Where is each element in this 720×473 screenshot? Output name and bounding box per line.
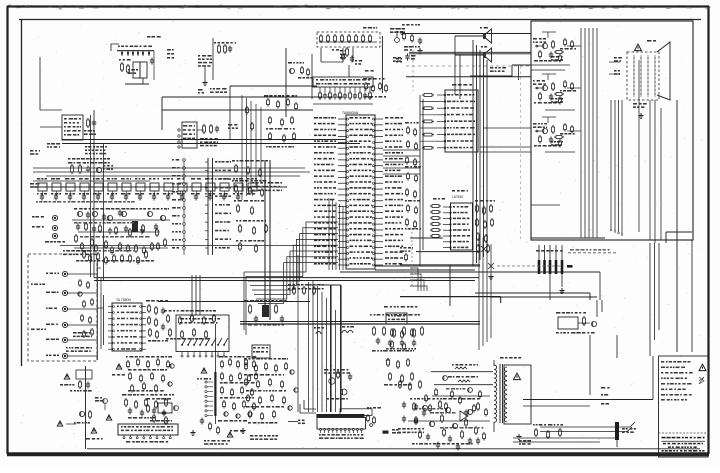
wire bundle to FBT connector xyxy=(313,280,336,412)
wire bold drops to FBT xyxy=(305,285,341,412)
degauss posistor cluster xyxy=(384,306,417,351)
tuner bias cluster Q201 area xyxy=(198,38,236,94)
wire drop verticals mid xyxy=(192,275,200,315)
heatsink bar xyxy=(214,355,216,424)
wire chroma drops xyxy=(101,278,215,355)
vertical IC input parts xyxy=(430,198,445,237)
transistor Q203 xyxy=(288,62,312,79)
transistor Q802 xyxy=(95,397,107,410)
wire vertical chassis divider xyxy=(85,366,87,449)
relay RL901 cluster xyxy=(556,300,602,334)
wire standby rail xyxy=(475,293,590,300)
resistor stack below KB1 xyxy=(340,47,362,77)
CRT board inner bottom notch xyxy=(531,232,692,243)
IF transformer T202 cluster xyxy=(178,122,238,148)
CRT cathode amp Q92 xyxy=(533,74,581,105)
CRT board internal wires xyxy=(531,65,575,205)
startup resistor rows xyxy=(431,364,493,396)
tuner AGC cluster xyxy=(68,158,113,174)
wire secondary harness xyxy=(513,422,635,442)
connector pin bumps xyxy=(314,326,354,334)
luma delay cluster parts xyxy=(246,95,298,148)
AC line filter parts xyxy=(398,380,424,433)
wire vert yoke xyxy=(400,238,480,306)
svg-text:TA 7680N: TA 7680N xyxy=(116,298,131,302)
CRT board right rail xyxy=(639,60,661,243)
shield can left pin column xyxy=(172,159,185,255)
wire shield box top xyxy=(162,97,346,130)
wire AV to IF IC xyxy=(97,268,104,349)
horizontal output snubber cluster xyxy=(240,314,480,362)
deflection yoke connector DY xyxy=(536,245,573,300)
wire EHT right column xyxy=(650,100,692,400)
speaker SP2 xyxy=(455,46,492,62)
audio IC input resistors xyxy=(420,94,437,266)
warning triangle W1 xyxy=(60,374,74,386)
AV jack termination parts xyxy=(63,250,97,352)
SAW filter SF201 cluster xyxy=(40,57,107,154)
IC601 audio amp xyxy=(437,84,478,152)
wire KB vertical xyxy=(381,36,383,93)
wire corners below vert IC xyxy=(410,268,427,291)
B+ distribution resistors xyxy=(164,310,216,340)
notes panel xyxy=(659,356,709,457)
wire fanout from IC101 left pins xyxy=(244,222,338,335)
vertical output pump parts xyxy=(475,200,495,280)
warning triangle W2 xyxy=(112,364,125,376)
wire heater pair xyxy=(409,52,531,54)
warning triangle W3 xyxy=(197,368,211,380)
wire bus left of IC101 xyxy=(329,198,343,270)
wire vertical x312 xyxy=(311,54,313,99)
mute transistor cluster xyxy=(146,398,178,425)
power distribution cluster xyxy=(218,356,257,422)
headphone out parts xyxy=(190,418,232,445)
IC801 audio power amp xyxy=(118,417,178,443)
wire PSU standby long xyxy=(400,297,597,303)
wire video bus lines xyxy=(94,278,479,302)
capacitor C208 xyxy=(396,54,416,63)
AV switch S401 box xyxy=(73,315,229,357)
wire B+ long xyxy=(523,387,653,400)
enclosure dashed edge xyxy=(412,40,414,91)
chroma peripheral resistors xyxy=(232,160,268,253)
focus divider marks xyxy=(609,57,622,75)
IC401 TA7680N IF/video xyxy=(108,298,146,351)
wire bundle to CRT board xyxy=(473,40,487,266)
CRT board vertical rails xyxy=(581,28,597,238)
SMPS primary control cluster xyxy=(286,0,490,451)
border frame inner left xyxy=(21,19,23,366)
border frame inner bottom thin xyxy=(87,448,700,450)
FBT aux parts xyxy=(300,400,401,434)
speaker return wires xyxy=(455,36,519,99)
wire IC101 right connections xyxy=(340,122,600,272)
wire B+ branch xyxy=(523,403,609,406)
speaker SP1 xyxy=(455,27,492,43)
IC201 memory IC with pin resistors xyxy=(313,70,374,104)
crystal X401 cluster xyxy=(244,300,287,326)
headphone jack cluster xyxy=(70,370,92,392)
warning triangle W5 xyxy=(86,428,103,440)
border frame inner top xyxy=(19,19,701,21)
FBT T902 pin connector strip xyxy=(288,409,372,439)
shield can right pin column xyxy=(205,158,231,255)
main switch S801 cluster xyxy=(390,28,412,62)
CRT board outline xyxy=(531,21,693,240)
wire vertical x286 xyxy=(285,48,287,117)
wire audio feed xyxy=(406,65,531,77)
title block xyxy=(659,433,709,455)
secondary rectifier parts xyxy=(516,424,563,445)
CRT cathode amp Q93 xyxy=(533,117,581,148)
transformer T601 line filter cluster xyxy=(111,36,174,84)
wire relay drop xyxy=(590,335,617,395)
svg-text:TA8690AN: TA8690AN xyxy=(342,111,359,115)
B+ sub cluster xyxy=(402,24,423,54)
AV input jack panel dashed xyxy=(28,254,97,361)
ground labels under chassis xyxy=(230,428,278,440)
KB1 drop wires xyxy=(321,48,353,62)
IC101 pin name labels xyxy=(314,117,403,265)
IF IC peripheral parts xyxy=(146,300,168,342)
wire enclosure dashed top xyxy=(406,65,530,67)
KB pull-up resistor stack xyxy=(363,78,387,98)
audio out coupling xyxy=(74,410,91,424)
wire dashed vert feedback xyxy=(411,228,413,286)
audio amp coupling caps xyxy=(122,394,174,417)
flyback damper parts xyxy=(384,358,413,386)
CRT lead bundle xyxy=(610,100,623,235)
sync countdown cluster xyxy=(244,345,298,424)
scan noise top edge xyxy=(8,5,710,10)
SMPS transformer T901 xyxy=(494,357,531,432)
video IF discriminator cluster X201 xyxy=(60,208,300,265)
warning triangle W6 xyxy=(106,415,112,420)
CRT socket V901 dashed xyxy=(627,40,670,119)
wire center drops xyxy=(298,255,309,412)
wire bus from IC201 down xyxy=(242,95,261,200)
warning triangle W4 xyxy=(57,421,76,426)
wire horiz drive run xyxy=(599,272,601,300)
IC101 TA8690AN main jungle IC xyxy=(338,111,383,269)
keyboard switch block KB1 dashed box xyxy=(317,27,380,47)
H-drive transistor Q401 cluster xyxy=(324,369,352,400)
video detector ceramic filter chain xyxy=(33,178,287,203)
wire IC201 bottom rail xyxy=(230,86,317,140)
wire IF bus lines xyxy=(33,140,360,182)
tuner TU101 input jacks xyxy=(30,150,65,243)
wire left verticals xyxy=(91,110,104,280)
wire B+ to CRT board xyxy=(396,28,531,35)
IC301 LA7830 vertical deflection xyxy=(443,190,473,250)
enclosure dashed right edge xyxy=(520,66,522,240)
connector CN902 dark bar xyxy=(615,422,636,447)
CRT cathode amp Q91 xyxy=(533,32,581,63)
sync separator parts xyxy=(288,284,324,295)
svg-text:LA7830: LA7830 xyxy=(452,195,463,199)
wire bundle PSU to deflection xyxy=(479,235,491,350)
X441 small cluster xyxy=(400,247,413,262)
audio input select cluster xyxy=(126,356,174,393)
wire long vertical pair xyxy=(265,160,270,320)
regulator pin column xyxy=(205,381,213,417)
dashed net label line xyxy=(497,249,616,266)
